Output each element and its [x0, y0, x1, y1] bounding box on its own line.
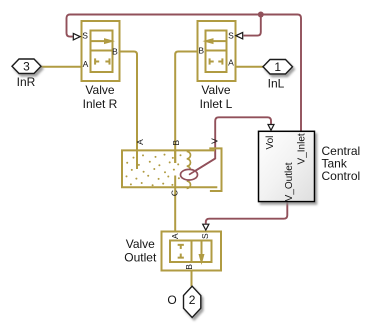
tank right bracket [209, 148, 221, 191]
inport 3 hexagon [12, 59, 41, 74]
tank T1: main outline [122, 150, 217, 187]
tank volume sensor ellipse [181, 169, 198, 180]
tank bellows squiggle [187, 151, 191, 188]
svg-text:Control: Control [322, 169, 361, 183]
svg-text:InL: InL [268, 77, 285, 91]
svg-text:B: B [112, 47, 118, 57]
svg-text:V: V [210, 138, 220, 144]
inport 1 hexagon [263, 60, 293, 75]
svg-text:O: O [167, 293, 176, 307]
valve U3: Valve Outlet block [162, 232, 222, 271]
svg-text:S: S [228, 30, 234, 40]
valve R S input triangle [73, 33, 80, 40]
wire: tank volume sensor needle to Vol input of Central Tank Control [189, 117, 271, 174]
valve L S input triangle [236, 32, 243, 39]
tank sensor needle [189, 159, 215, 175]
svg-text:B: B [198, 45, 204, 55]
svg-text:3: 3 [23, 60, 30, 74]
junction dot [258, 12, 264, 18]
svg-text:S: S [200, 233, 210, 239]
valve outlet arrowhead [199, 254, 205, 265]
valve outlet S input triangle [203, 224, 209, 230]
svg-text:B: B [184, 264, 194, 270]
svg-text:Outlet: Outlet [124, 251, 157, 265]
svg-text:V_Inlet: V_Inlet [297, 133, 308, 164]
svg-text:S: S [82, 31, 88, 41]
svg-text:Valve: Valve [85, 83, 114, 97]
valve R arrowhead [104, 38, 115, 44]
svg-text:InR: InR [17, 75, 36, 89]
svg-text:1: 1 [274, 60, 281, 74]
svg-text:2: 2 [189, 293, 196, 307]
svg-text:A: A [170, 233, 180, 239]
wire: Valve Inlet L B port to tank B port [175, 52, 197, 164]
wire: branch from junction down to Valve Inlet L S port [244, 15, 261, 36]
tank A pipe [136, 150, 138, 169]
svg-text:A: A [135, 139, 145, 145]
svg-text:C: C [169, 190, 179, 196]
wire: InR port to Valve Inlet R A port [41, 66, 82, 68]
wire: V_Outlet output down-left to Valve Outlet S port [206, 202, 287, 224]
svg-text:V_Outlet: V_Outlet [284, 162, 295, 201]
wire: InL port to Valve Inlet L A port [236, 66, 264, 68]
valve U2: Valve Inlet L block [198, 21, 236, 81]
tank B pipe [174, 150, 176, 163]
svg-text:Valve: Valve [201, 83, 230, 97]
svg-text:Valve: Valve [126, 237, 155, 251]
tank fluid dots [126, 154, 182, 187]
outport 2 hexagon [184, 286, 201, 317]
svg-text:A: A [83, 59, 89, 69]
svg-text:Vol: Vol [265, 136, 276, 150]
wire: S-control signal from V_Inlet around top to Valve Inlet R S port and down to V_Inlet [67, 15, 302, 132]
valve U1: Valve Inlet R block [82, 21, 120, 81]
svg-text:Inlet R: Inlet R [83, 97, 118, 111]
Vol input triangle [268, 125, 274, 131]
subsystem: Central Tank Control block [259, 131, 315, 201]
svg-text:B: B [171, 140, 181, 146]
svg-text:Inlet L: Inlet L [200, 97, 233, 111]
valve L arrowhead [203, 38, 214, 44]
wire: Valve Inlet R B port to tank A port [120, 52, 138, 170]
wire: tank C port to Valve Outlet A port [174, 176, 176, 232]
wire: Valve Outlet B port to Out port 2 [191, 271, 193, 287]
svg-text:A: A [228, 57, 234, 67]
